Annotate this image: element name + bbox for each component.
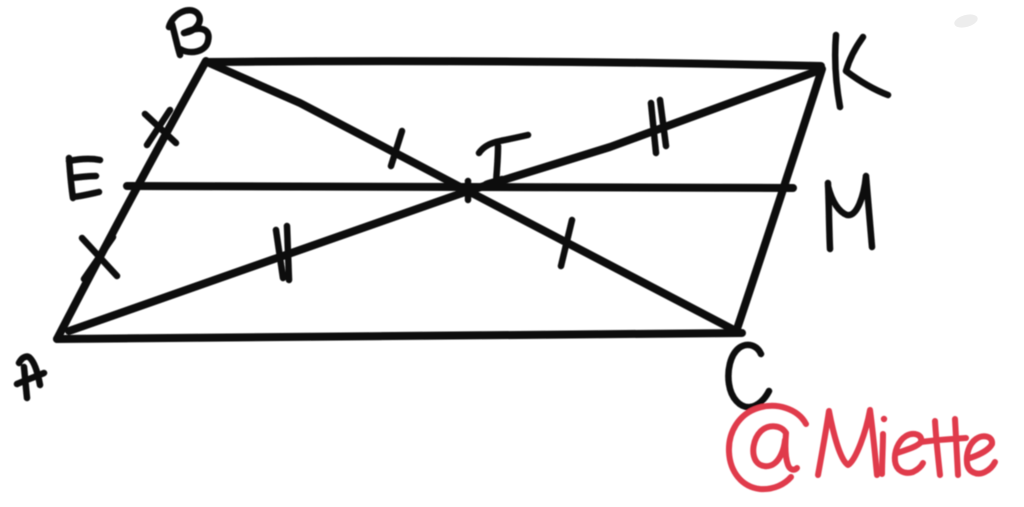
node I point marker xyxy=(465,181,472,200)
tick single on segment B-I xyxy=(391,131,402,166)
label B xyxy=(169,10,209,55)
label A xyxy=(17,357,44,398)
wire side A-C (bottom) xyxy=(57,333,742,339)
faint smudge top-right xyxy=(953,12,979,30)
tick single on segment I-C xyxy=(561,220,572,266)
label I xyxy=(479,135,528,184)
wire diagonal B-C xyxy=(207,62,736,331)
wire diagonal A-K xyxy=(69,70,820,331)
watermark i dot xyxy=(881,416,887,422)
watermark @ xyxy=(729,406,806,489)
tick double on segment I-K xyxy=(651,100,666,153)
tick X on segment B-E xyxy=(145,110,176,145)
tick double on segment A-I xyxy=(276,226,289,280)
watermark Miette xyxy=(818,410,877,475)
wire midline E-M xyxy=(127,186,793,188)
label E xyxy=(69,158,100,198)
label M xyxy=(828,176,872,249)
tick X on segment E-A xyxy=(82,237,117,279)
label K xyxy=(835,35,888,107)
wire side B-A (left) xyxy=(57,61,206,339)
label C xyxy=(728,345,769,407)
wire side B-K (top) xyxy=(206,61,821,66)
wire side K-C (right) xyxy=(736,69,822,332)
